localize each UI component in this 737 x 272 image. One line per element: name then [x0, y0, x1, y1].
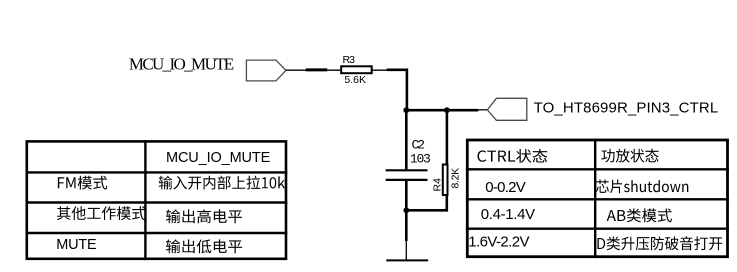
table1 cell 其他工作模式 [57, 206, 146, 220]
table2 header CTRL状态 [477, 149, 547, 163]
table2 header 功放状态 [601, 149, 658, 163]
resistor R3 [341, 66, 372, 73]
wire thin to port [478, 109, 488, 111]
table1 row line 2 [26, 201, 288, 203]
wire: R3 to corner [372, 69, 407, 71]
svg-text:R3: R3 [343, 54, 356, 66]
svg-text:MCU_IO_MUTE: MCU_IO_MUTE [129, 54, 234, 73]
table1 row line 1 [26, 171, 288, 173]
capacitor C2 top plate [386, 169, 428, 171]
wire: node C down [405, 210, 408, 241]
port connector TO_HT8699R_PIN3_CTRL [487, 98, 526, 120]
table1 cell FM模式 [58, 176, 107, 190]
port connector MCU_IO_MUTE [246, 60, 286, 81]
wire: node B down to R4 [446, 110, 449, 164]
table2 row line 2 [466, 198, 729, 200]
wire: thick corner down to node A [387, 70, 407, 110]
table1 cell 输入开内部上拉10k [159, 176, 285, 190]
svg-text:MUTE: MUTE [56, 237, 97, 253]
table2 cell AB类模式 [607, 208, 672, 222]
table1 row line 3 [26, 232, 288, 234]
svg-text:R4: R4 [432, 178, 444, 192]
svg-text:8.2K: 8.2K [450, 168, 462, 189]
svg-text:0.4-1.4V: 0.4-1.4V [481, 206, 536, 223]
table1 cell 输出低电平 [166, 239, 242, 253]
wire: node A down to C2 [405, 110, 408, 169]
svg-text:5.6K: 5.6K [344, 74, 366, 86]
wire thick segment [306, 68, 328, 71]
table2 cell 芯片shutdown [596, 179, 688, 193]
wire: node B to port [447, 109, 478, 112]
svg-text:C2: C2 [412, 137, 426, 152]
table1 column divider [144, 140, 146, 260]
table1 outer border [27, 141, 286, 258]
junction node A [403, 107, 409, 113]
table2 cell D类升压防破音打开 [597, 236, 722, 250]
table1 cell 输出高电平 [166, 209, 242, 223]
wire: port to R3 [286, 69, 341, 71]
svg-text:0-0.2V: 0-0.2V [485, 179, 526, 196]
table2 row line 3 [466, 227, 729, 229]
table2 column divider [594, 139, 596, 259]
wire: node A to node B [406, 109, 447, 112]
capacitor C2 bottom plate [386, 179, 428, 181]
svg-text:103: 103 [410, 151, 431, 166]
wire: C2 to node C [405, 180, 408, 210]
svg-text:MCU_IO_MUTE: MCU_IO_MUTE [166, 150, 271, 166]
wire thin down to ground [405, 241, 407, 260]
junction node C [403, 207, 409, 213]
svg-text:TO_HT8699R_PIN3_CTRL: TO_HT8699R_PIN3_CTRL [534, 99, 719, 116]
table2 outer border [467, 140, 727, 257]
table2 row line 1 [466, 168, 729, 170]
resistor R4 [443, 165, 448, 196]
svg-text:1.6V-2.2V: 1.6V-2.2V [468, 234, 529, 251]
wire: R4 to node C [406, 196, 447, 210]
ground bar [386, 259, 428, 261]
junction node B [444, 107, 450, 113]
